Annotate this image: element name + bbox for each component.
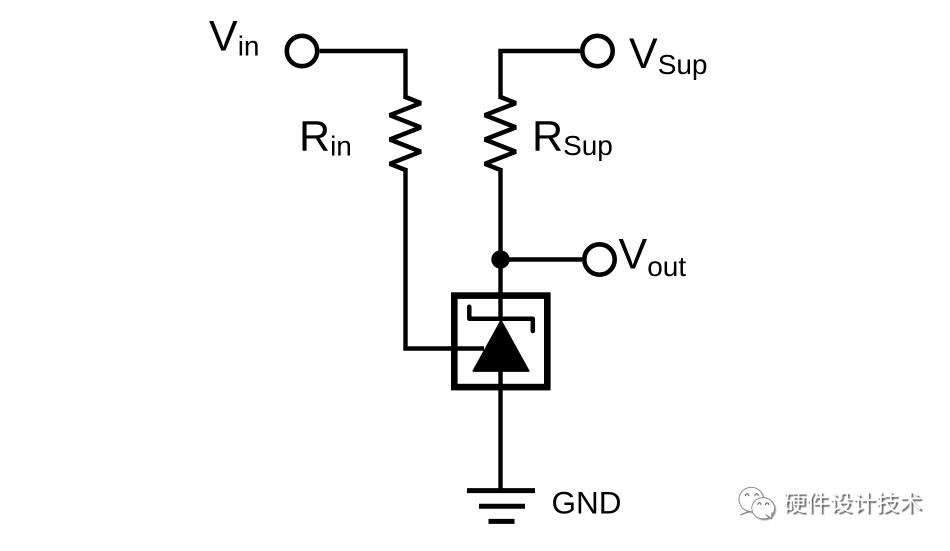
watermark text 硬件设计技术 white front [784, 492, 921, 513]
watermark wechat front bubble shadow [753, 499, 776, 520]
terminal Vout (output terminal circle) [584, 244, 614, 274]
svg-text:GND: GND [552, 485, 622, 521]
watermark text 硬件设计技术 shadow [786, 494, 923, 515]
zener cathode bar with bent ends inside U1 [469, 307, 533, 331]
watermark wechat back bubble tail [741, 512, 749, 515]
wire RSup bottom through Vout node to shunt reference cathode [498, 168, 502, 321]
wire Rin bottom to shunt-reference REF input [406, 168, 485, 349]
ground symbol bar 2 [479, 504, 525, 509]
watermark: WeChat logo + text (white with gray shadow) [739, 487, 923, 520]
watermark wechat front bubble tail [766, 512, 772, 518]
wire Vout node to Vout terminal [501, 257, 583, 261]
resistor R_Sup (zigzag) [485, 97, 516, 170]
watermark wechat front bubble [752, 498, 775, 519]
zener diode anode triangle inside U1 [473, 321, 528, 371]
watermark wechat back bubble shadow [741, 489, 766, 513]
wire U1 anode to ground [498, 370, 502, 491]
terminal VSup (supply terminal circle) [582, 36, 612, 66]
terminal Vin (input terminal circle) [287, 36, 317, 66]
wire Vin terminal to Rin top [320, 51, 406, 99]
watermark wechat back bubble eyes [745, 494, 748, 496]
ground symbol bar 3 [489, 519, 515, 524]
junction node at Vout tap [491, 250, 509, 268]
wire VSup terminal to RSup top [501, 51, 581, 99]
watermark wechat back bubble [739, 487, 764, 511]
shunt reference U1 body box [454, 296, 547, 388]
ground symbol bar 1 [467, 488, 535, 493]
resistor R_in (zigzag) [390, 97, 421, 170]
watermark wechat front bubble eyes [758, 503, 761, 505]
